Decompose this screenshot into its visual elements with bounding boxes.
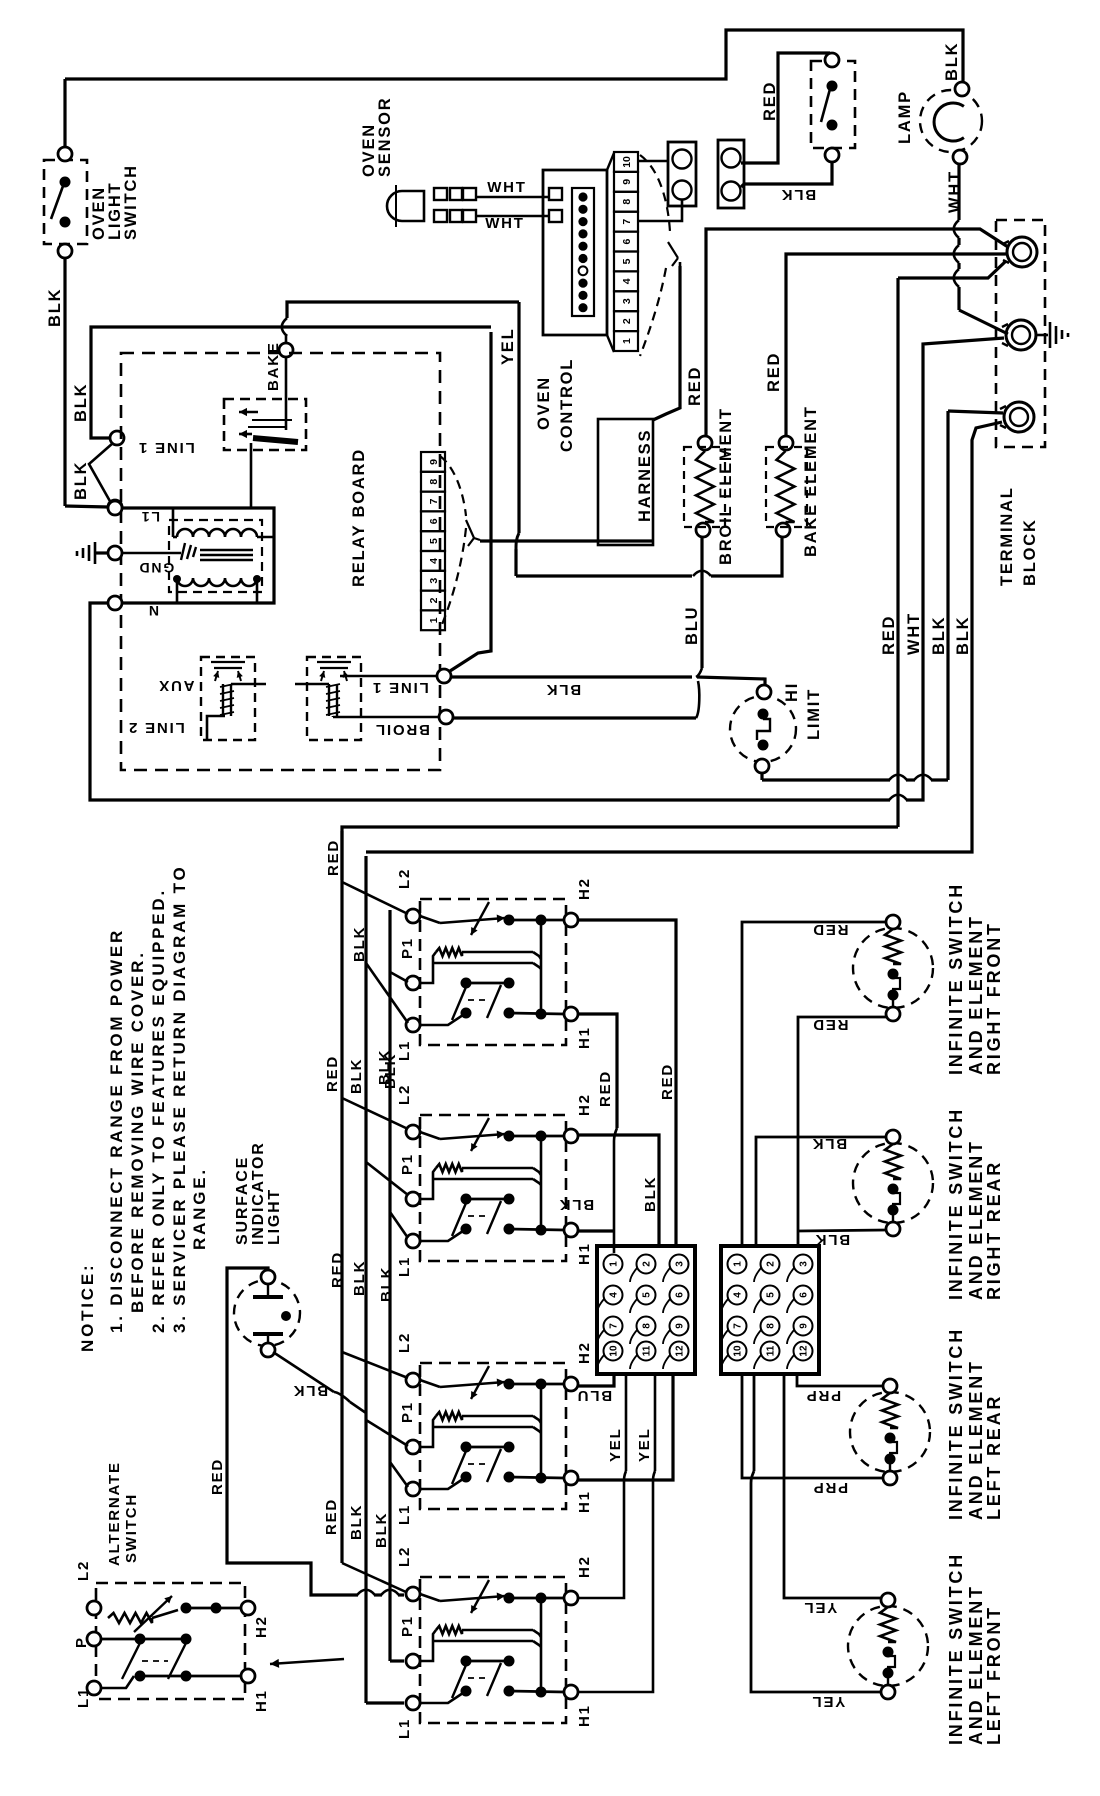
svg-text:BLK: BLK (558, 1196, 594, 1213)
svg-text:RED: RED (880, 615, 898, 655)
infinite switch S3 box (420, 1363, 566, 1509)
wire oven control RED down (679, 262, 682, 266)
svg-text:12: 12 (675, 1345, 686, 1357)
svg-text:YEL: YEL (607, 1427, 624, 1462)
svg-text:2: 2 (766, 1261, 777, 1267)
svg-text:1. DISCONNECT RANGE FROM POWER: 1. DISCONNECT RANGE FROM POWER (107, 928, 126, 1333)
svg-text:RED: RED (811, 1016, 848, 1033)
svg-text:8: 8 (766, 1323, 777, 1329)
svg-text:9: 9 (621, 179, 633, 185)
wire RED connector B to oven door switch (741, 53, 830, 163)
transformer core (200, 549, 253, 551)
bake relay K1 (224, 399, 306, 450)
svg-text:LINE 1: LINE 1 (371, 679, 428, 696)
svg-text:ALTERNATE: ALTERNATE (106, 1461, 123, 1566)
S4 H2 contacts (504, 1593, 515, 1604)
S1 pilot resistor (436, 948, 462, 956)
wire: horizontal bus y=327 to relay board line input (91, 327, 491, 438)
S1 H1 row (509, 1013, 564, 1014)
svg-text:SURFACE: SURFACE (234, 1156, 251, 1245)
svg-text:H1: H1 (576, 1704, 593, 1727)
wire LINE1 to hi-limit junction (451, 675, 692, 678)
svg-text:L1: L1 (75, 1687, 92, 1708)
svg-text:BLK: BLK (348, 1504, 365, 1540)
svg-text:L2: L2 (75, 1560, 92, 1581)
svg-text:YEL: YEL (499, 328, 517, 366)
wire YEL pin11 to H2 S4 (625, 1376, 628, 1471)
svg-text:L1: L1 (396, 1718, 413, 1739)
svg-text:1: 1 (621, 338, 633, 344)
svg-text:BLU: BLU (576, 1387, 612, 1404)
svg-text:3: 3 (621, 298, 633, 304)
wire relay to BROIL terminal (333, 716, 439, 719)
wire H2 S3 BLU to pin10 (578, 1376, 614, 1386)
svg-text:WHT: WHT (485, 215, 525, 232)
harness box (598, 419, 653, 545)
S1 H2 contacts (504, 915, 515, 926)
svg-text:RED: RED (686, 366, 704, 406)
bake element (779, 436, 793, 450)
wire relay to LINE terminal (340, 675, 437, 678)
svg-text:5: 5 (642, 1292, 653, 1298)
S1 lower contact set (461, 978, 472, 989)
svg-text:BLK: BLK (46, 288, 64, 327)
svg-text:WHT: WHT (905, 612, 923, 655)
svg-text:9: 9 (428, 459, 440, 465)
YEL riser from bus y=302 (517, 302, 520, 533)
S2 lower contact set (461, 1194, 472, 1205)
S1 wiper arm (420, 916, 440, 923)
broil element (698, 436, 712, 450)
svg-text:AND ELEMENT: AND ELEMENT (966, 1139, 986, 1300)
svg-text:2: 2 (642, 1261, 653, 1267)
svg-text:AUX: AUX (157, 677, 194, 694)
svg-text:L1: L1 (140, 509, 160, 525)
S4 L2 terminal (406, 1587, 420, 1601)
svg-text:RED: RED (324, 1055, 341, 1092)
wire: bus y=302 (bake line) (287, 302, 519, 318)
svg-text:10: 10 (621, 156, 633, 168)
svg-text:RELAY BOARD: RELAY BOARD (350, 448, 368, 587)
S1 L2 terminal (406, 909, 420, 923)
wire BLK from indicator light to bus (273, 1352, 334, 1392)
wire bus2 RED bake to terminal (786, 254, 1006, 435)
connector block CB1 (597, 1246, 695, 1374)
wire BLK bus 1 (364, 856, 367, 1703)
infinite switch S1 box (420, 899, 566, 1045)
wire RED from indicator light to alternate switch area (227, 1268, 358, 1595)
svg-text:9: 9 (675, 1323, 686, 1329)
svg-text:HI: HI (783, 682, 801, 702)
S3 P terminal (406, 1440, 420, 1454)
svg-text:BLK: BLK (373, 1512, 390, 1548)
infinite switch S4 box (420, 1577, 566, 1723)
wire BROIL BLK to junction stub (453, 716, 696, 719)
relay AUX (201, 657, 255, 740)
S3 H2 contacts (504, 1379, 515, 1390)
wire BLK element2 bottom (798, 1230, 886, 1231)
wire RED bus (left fan) (340, 831, 343, 1563)
svg-text:P1: P1 (399, 937, 416, 959)
svg-text:4: 4 (621, 278, 633, 284)
fan diagonal level4 L2 (342, 1563, 406, 1592)
wire RED element1 bottom (798, 1017, 886, 1244)
svg-text:HARNESS: HARNESS (636, 429, 654, 522)
svg-text:WHT: WHT (487, 179, 527, 196)
oven sensor (387, 191, 424, 221)
wire H1 S3 to connector1 col3 (578, 1376, 673, 1480)
svg-text:11: 11 (766, 1345, 777, 1356)
wire LINE terminal riser to bus y=327 (450, 332, 491, 671)
svg-text:YEL: YEL (636, 1427, 653, 1462)
svg-text:8: 8 (428, 479, 440, 485)
svg-text:BLK: BLK (642, 1176, 659, 1212)
svg-text:N: N (147, 603, 159, 619)
svg-text:H2: H2 (576, 877, 593, 900)
svg-text:P1: P1 (399, 1153, 416, 1175)
surface element E2 (right rear) (853, 1143, 933, 1223)
wire bus1 RED broil to terminal (706, 229, 1008, 435)
svg-text:7: 7 (733, 1323, 744, 1329)
arrow alternate switch pointer (270, 1659, 344, 1664)
svg-text:INFINITE SWITCH: INFINITE SWITCH (946, 1552, 966, 1745)
node LINE terminal (437, 669, 451, 683)
S4 lower contact set (461, 1656, 472, 1667)
svg-text:BROIL ELEMENT: BROIL ELEMENT (717, 407, 735, 565)
wire WHT neutral bus (90, 603, 890, 800)
svg-text:RED: RED (209, 1458, 226, 1495)
svg-text:3: 3 (428, 578, 440, 584)
svg-text:8: 8 (621, 199, 633, 205)
dashed oval relay connector (440, 456, 466, 516)
svg-text:SWITCH: SWITCH (122, 164, 140, 240)
svg-text:7: 7 (621, 219, 633, 225)
svg-text:LEFT REAR: LEFT REAR (984, 1394, 1004, 1520)
svg-text:TERMINAL: TERMINAL (998, 486, 1016, 586)
S2 L1 terminal (406, 1234, 420, 1248)
relay board connector strip 1-9 (421, 452, 445, 472)
svg-text:L1: L1 (396, 1256, 413, 1277)
S3 wiper arm (420, 1380, 440, 1387)
svg-text:CONTROL: CONTROL (558, 358, 576, 452)
svg-text:H2: H2 (576, 1341, 593, 1364)
svg-text:BLK: BLK (72, 383, 90, 422)
svg-text:P1: P1 (399, 1401, 416, 1423)
svg-text:H1: H1 (576, 1026, 593, 1049)
svg-text:P1: P1 (399, 1615, 416, 1637)
svg-text:INFINITE SWITCH: INFINITE SWITCH (946, 1107, 966, 1300)
svg-text:3: 3 (799, 1261, 810, 1267)
S1 P terminal (406, 976, 420, 990)
oven light switch (44, 160, 87, 244)
svg-text:9: 9 (799, 1323, 810, 1329)
S2 wiper arm (420, 1132, 440, 1139)
svg-text:BLK: BLK (780, 186, 816, 203)
svg-text:4: 4 (609, 1292, 620, 1298)
YEL lower run to bake element (516, 574, 692, 577)
svg-text:5: 5 (621, 258, 633, 264)
2-hole connector A (668, 142, 696, 206)
S4 contact bridge (540, 1598, 543, 1691)
alternate switch (96, 1583, 245, 1699)
svg-text:1: 1 (733, 1261, 744, 1267)
transformer T1 outer box (108, 501, 122, 515)
svg-text:AND ELEMENT: AND ELEMENT (966, 1584, 986, 1745)
svg-text:OVEN: OVEN (535, 376, 553, 430)
svg-text:AND ELEMENT: AND ELEMENT (966, 1359, 986, 1520)
svg-text:5: 5 (766, 1292, 777, 1298)
S2 H2 contacts (504, 1131, 515, 1142)
svg-text:BROIL: BROIL (374, 721, 430, 738)
svg-text:L2: L2 (396, 868, 413, 889)
svg-text:BLK: BLK (348, 1058, 365, 1094)
wire YEL pin12 to H1 S4 (654, 1376, 657, 1471)
svg-text:BLK: BLK (382, 1053, 399, 1089)
svg-text:LEFT FRONT: LEFT FRONT (984, 1605, 1004, 1745)
svg-text:11: 11 (642, 1345, 653, 1356)
S4 L1 terminal (406, 1696, 420, 1710)
svg-text:BLK: BLK (351, 1260, 368, 1296)
dashed oval oven control connector (640, 155, 670, 232)
svg-text:BAKE: BAKE (265, 341, 282, 391)
svg-text:RANGE.: RANGE. (190, 1167, 209, 1250)
transformer shield to GND (122, 552, 181, 555)
S2 pilot resistor (436, 1164, 462, 1172)
svg-text:LIMIT: LIMIT (805, 688, 823, 740)
oven control connector strip 1-10 (614, 152, 638, 172)
svg-text:RED: RED (323, 1498, 340, 1535)
node BROIL terminal (439, 710, 453, 724)
svg-text:BLK: BLK (72, 461, 90, 500)
svg-text:BLK: BLK (954, 616, 972, 655)
svg-text:H2: H2 (576, 1093, 593, 1116)
wire harness link line y=541 (480, 539, 653, 542)
svg-text:BAKE ELEMENT: BAKE ELEMENT (802, 405, 820, 557)
svg-text:4: 4 (733, 1292, 744, 1298)
svg-text:6: 6 (428, 518, 440, 524)
wire RED bus y=827 (342, 827, 898, 880)
S4 pilot resistor (436, 1626, 462, 1634)
ground symbol terminal block (1035, 334, 1048, 337)
wire H2 S2 to connector1 (578, 1135, 659, 1244)
svg-text:3. SERVICER PLEASE RETURN DIAG: 3. SERVICER PLEASE RETURN DIAGRAM TO (170, 864, 189, 1333)
svg-text:SENSOR: SENSOR (376, 97, 394, 177)
surface indicator light (234, 1280, 300, 1346)
wire strip10 to connector A (638, 160, 668, 163)
ground symbol (relay board) (95, 551, 108, 554)
wire junction to hi limit (697, 677, 765, 685)
svg-text:RED: RED (765, 352, 783, 392)
surface element E3 (left rear) (850, 1392, 930, 1472)
svg-text:6: 6 (799, 1292, 810, 1298)
oven control board (543, 170, 607, 335)
svg-text:BLK: BLK (292, 1382, 328, 1399)
S4 H1 row (509, 1691, 564, 1692)
svg-text:BLK: BLK (545, 681, 581, 698)
svg-text:7: 7 (428, 498, 440, 504)
oven control indicator dots (572, 188, 594, 316)
svg-text:BLK: BLK (930, 616, 948, 655)
S3 pilot resistor (436, 1412, 462, 1420)
svg-text:INFINITE SWITCH: INFINITE SWITCH (946, 882, 966, 1075)
wire from bake relay to transformer box (250, 443, 253, 508)
wire bus3 (898, 261, 1006, 278)
svg-text:H2: H2 (576, 1555, 593, 1578)
terminal block (996, 220, 1045, 447)
svg-text:BLK: BLK (943, 42, 961, 81)
wire RED from oven control to harness (653, 266, 680, 420)
svg-text:RED: RED (597, 1070, 614, 1107)
oven lamp (920, 90, 982, 152)
oven door switch (811, 61, 855, 148)
fan diagonals level2 (342, 1098, 408, 1129)
svg-text:P: P (73, 1636, 90, 1648)
infinite switch S2 box (420, 1115, 566, 1261)
svg-text:RIGHT FRONT: RIGHT FRONT (984, 921, 1004, 1075)
svg-text:L2: L2 (396, 1332, 413, 1353)
svg-text:1: 1 (428, 617, 440, 623)
transformer secondary coil (177, 578, 257, 586)
wire BLK bus 2 (388, 910, 391, 1661)
wire BLK from oven light switch down (63, 258, 66, 506)
svg-text:6: 6 (621, 238, 633, 244)
wire YEL CB2 to element4 bottom (753, 1376, 756, 1471)
svg-text:L2: L2 (396, 1546, 413, 1567)
wire BLK bus y=852 (366, 422, 1002, 852)
svg-text:SWITCH: SWITCH (123, 1493, 140, 1563)
wire BLK corner into relay board L1 terminal (65, 506, 108, 507)
wire H2 S1 to connector1 (578, 920, 676, 1244)
wire BLK element2 top to CB2 pin2 (756, 1137, 886, 1244)
S2 L2 terminal (406, 1125, 420, 1139)
S2 H1 row (509, 1229, 564, 1230)
wire RED element1 top to CB2 pin1 (742, 922, 886, 1244)
svg-text:BLK: BLK (378, 1266, 395, 1302)
S4 P terminal (406, 1654, 420, 1668)
wire: top supply line BLK (L-shaped top boundary) (65, 30, 963, 82)
svg-text:7: 7 (609, 1323, 620, 1329)
svg-text:H1: H1 (576, 1242, 593, 1265)
svg-text:INFINITE SWITCH: INFINITE SWITCH (946, 1327, 966, 1520)
S1 contact bridge (540, 920, 543, 1013)
svg-text:LINE 1: LINE 1 (137, 439, 194, 456)
svg-text:4: 4 (428, 558, 440, 564)
wire WHT from lamp down (957, 164, 960, 220)
S2 P terminal (406, 1192, 420, 1206)
S3 lower contact set (461, 1442, 472, 1453)
svg-text:YEL: YEL (803, 1599, 838, 1616)
svg-text:RIGHT REAR: RIGHT REAR (984, 1160, 1004, 1300)
svg-text:RED: RED (329, 1251, 346, 1288)
svg-text:10: 10 (733, 1345, 744, 1357)
svg-text:BEFORE REMOVING WIRE COVER.: BEFORE REMOVING WIRE COVER. (128, 950, 147, 1313)
S3 H1 row (509, 1477, 564, 1478)
node: bake wire junction on relay board edge (279, 343, 293, 357)
svg-text:RED: RED (761, 81, 779, 121)
S4 wiper arm (420, 1594, 440, 1601)
S3 contact bridge (540, 1384, 543, 1477)
svg-text:3: 3 (675, 1261, 686, 1267)
svg-text:YEL: YEL (811, 1693, 846, 1710)
svg-text:5: 5 (428, 538, 440, 544)
svg-text:6: 6 (675, 1292, 686, 1298)
svg-text:10: 10 (609, 1345, 620, 1357)
svg-text:2: 2 (621, 318, 633, 324)
svg-text:PRP: PRP (812, 1479, 848, 1496)
fan diagonals level3 (342, 1352, 408, 1378)
wire H1 S2 BLK to pin1 (578, 1229, 614, 1232)
connector block CB2 (721, 1246, 819, 1374)
svg-text:LIGHT: LIGHT (266, 1188, 283, 1245)
S3 L1 terminal (406, 1482, 420, 1496)
svg-text:2. REFER ONLY TO FEATURES EQUI: 2. REFER ONLY TO FEATURES EQUIPPED. (149, 888, 168, 1333)
svg-text:H1: H1 (576, 1490, 593, 1513)
svg-text:LINE 2: LINE 2 (127, 719, 184, 736)
wire connector A to strip 8 (638, 200, 682, 221)
relay LINE1/BROIL (307, 657, 361, 740)
transformer primary coil (177, 529, 257, 537)
svg-text:8: 8 (642, 1323, 653, 1329)
svg-text:PRP: PRP (805, 1387, 841, 1404)
svg-text:RED: RED (811, 921, 848, 938)
svg-text:12: 12 (799, 1345, 810, 1357)
wire H1 S1 down (578, 1014, 617, 1128)
svg-text:BLK: BLK (814, 1231, 850, 1248)
svg-text:BLK: BLK (811, 1135, 847, 1152)
relay board dashed outline (121, 353, 440, 770)
svg-text:INDICATOR: INDICATOR (250, 1141, 267, 1245)
svg-text:AND ELEMENT: AND ELEMENT (966, 914, 986, 1075)
S2 contact bridge (540, 1136, 543, 1229)
wire YEL CB2 to element4 top (784, 1376, 881, 1598)
svg-text:WHT: WHT (946, 170, 964, 213)
transformer T1 dashed box (169, 520, 262, 592)
surface element E4 (left front) (848, 1606, 928, 1686)
svg-text:NOTICE:: NOTICE: (78, 1263, 97, 1352)
wire PRP CB2 to element3 bottom (742, 1376, 883, 1478)
wire BLK door switch to connector B (741, 162, 832, 187)
svg-text:L1: L1 (396, 1504, 413, 1525)
node relay board line terminals + bridge (110, 431, 124, 445)
svg-text:BLK: BLK (351, 926, 368, 962)
wire BLU broil element down to junction (700, 537, 703, 668)
svg-text:H2: H2 (253, 1615, 270, 1638)
hi limit thermostat (730, 696, 796, 762)
surface element E1 (right front) (853, 928, 933, 1008)
svg-text:LAMP: LAMP (896, 90, 914, 144)
svg-text:RED: RED (325, 839, 342, 876)
svg-text:RED: RED (659, 1063, 676, 1100)
svg-text:BLOCK: BLOCK (1021, 518, 1039, 586)
svg-text:BLU: BLU (683, 606, 701, 645)
2-hole connector B (718, 140, 744, 208)
svg-text:1: 1 (609, 1261, 620, 1267)
S1 L1 terminal (406, 1018, 420, 1032)
wire hi limit to terminal block BLK (760, 773, 763, 780)
wire PRP CB2 pin12 to element3 top (797, 1376, 883, 1386)
svg-text:H1: H1 (253, 1689, 270, 1712)
S3 L2 terminal (406, 1373, 420, 1387)
fan diagonals level1 (342, 882, 408, 914)
svg-text:2: 2 (428, 597, 440, 603)
